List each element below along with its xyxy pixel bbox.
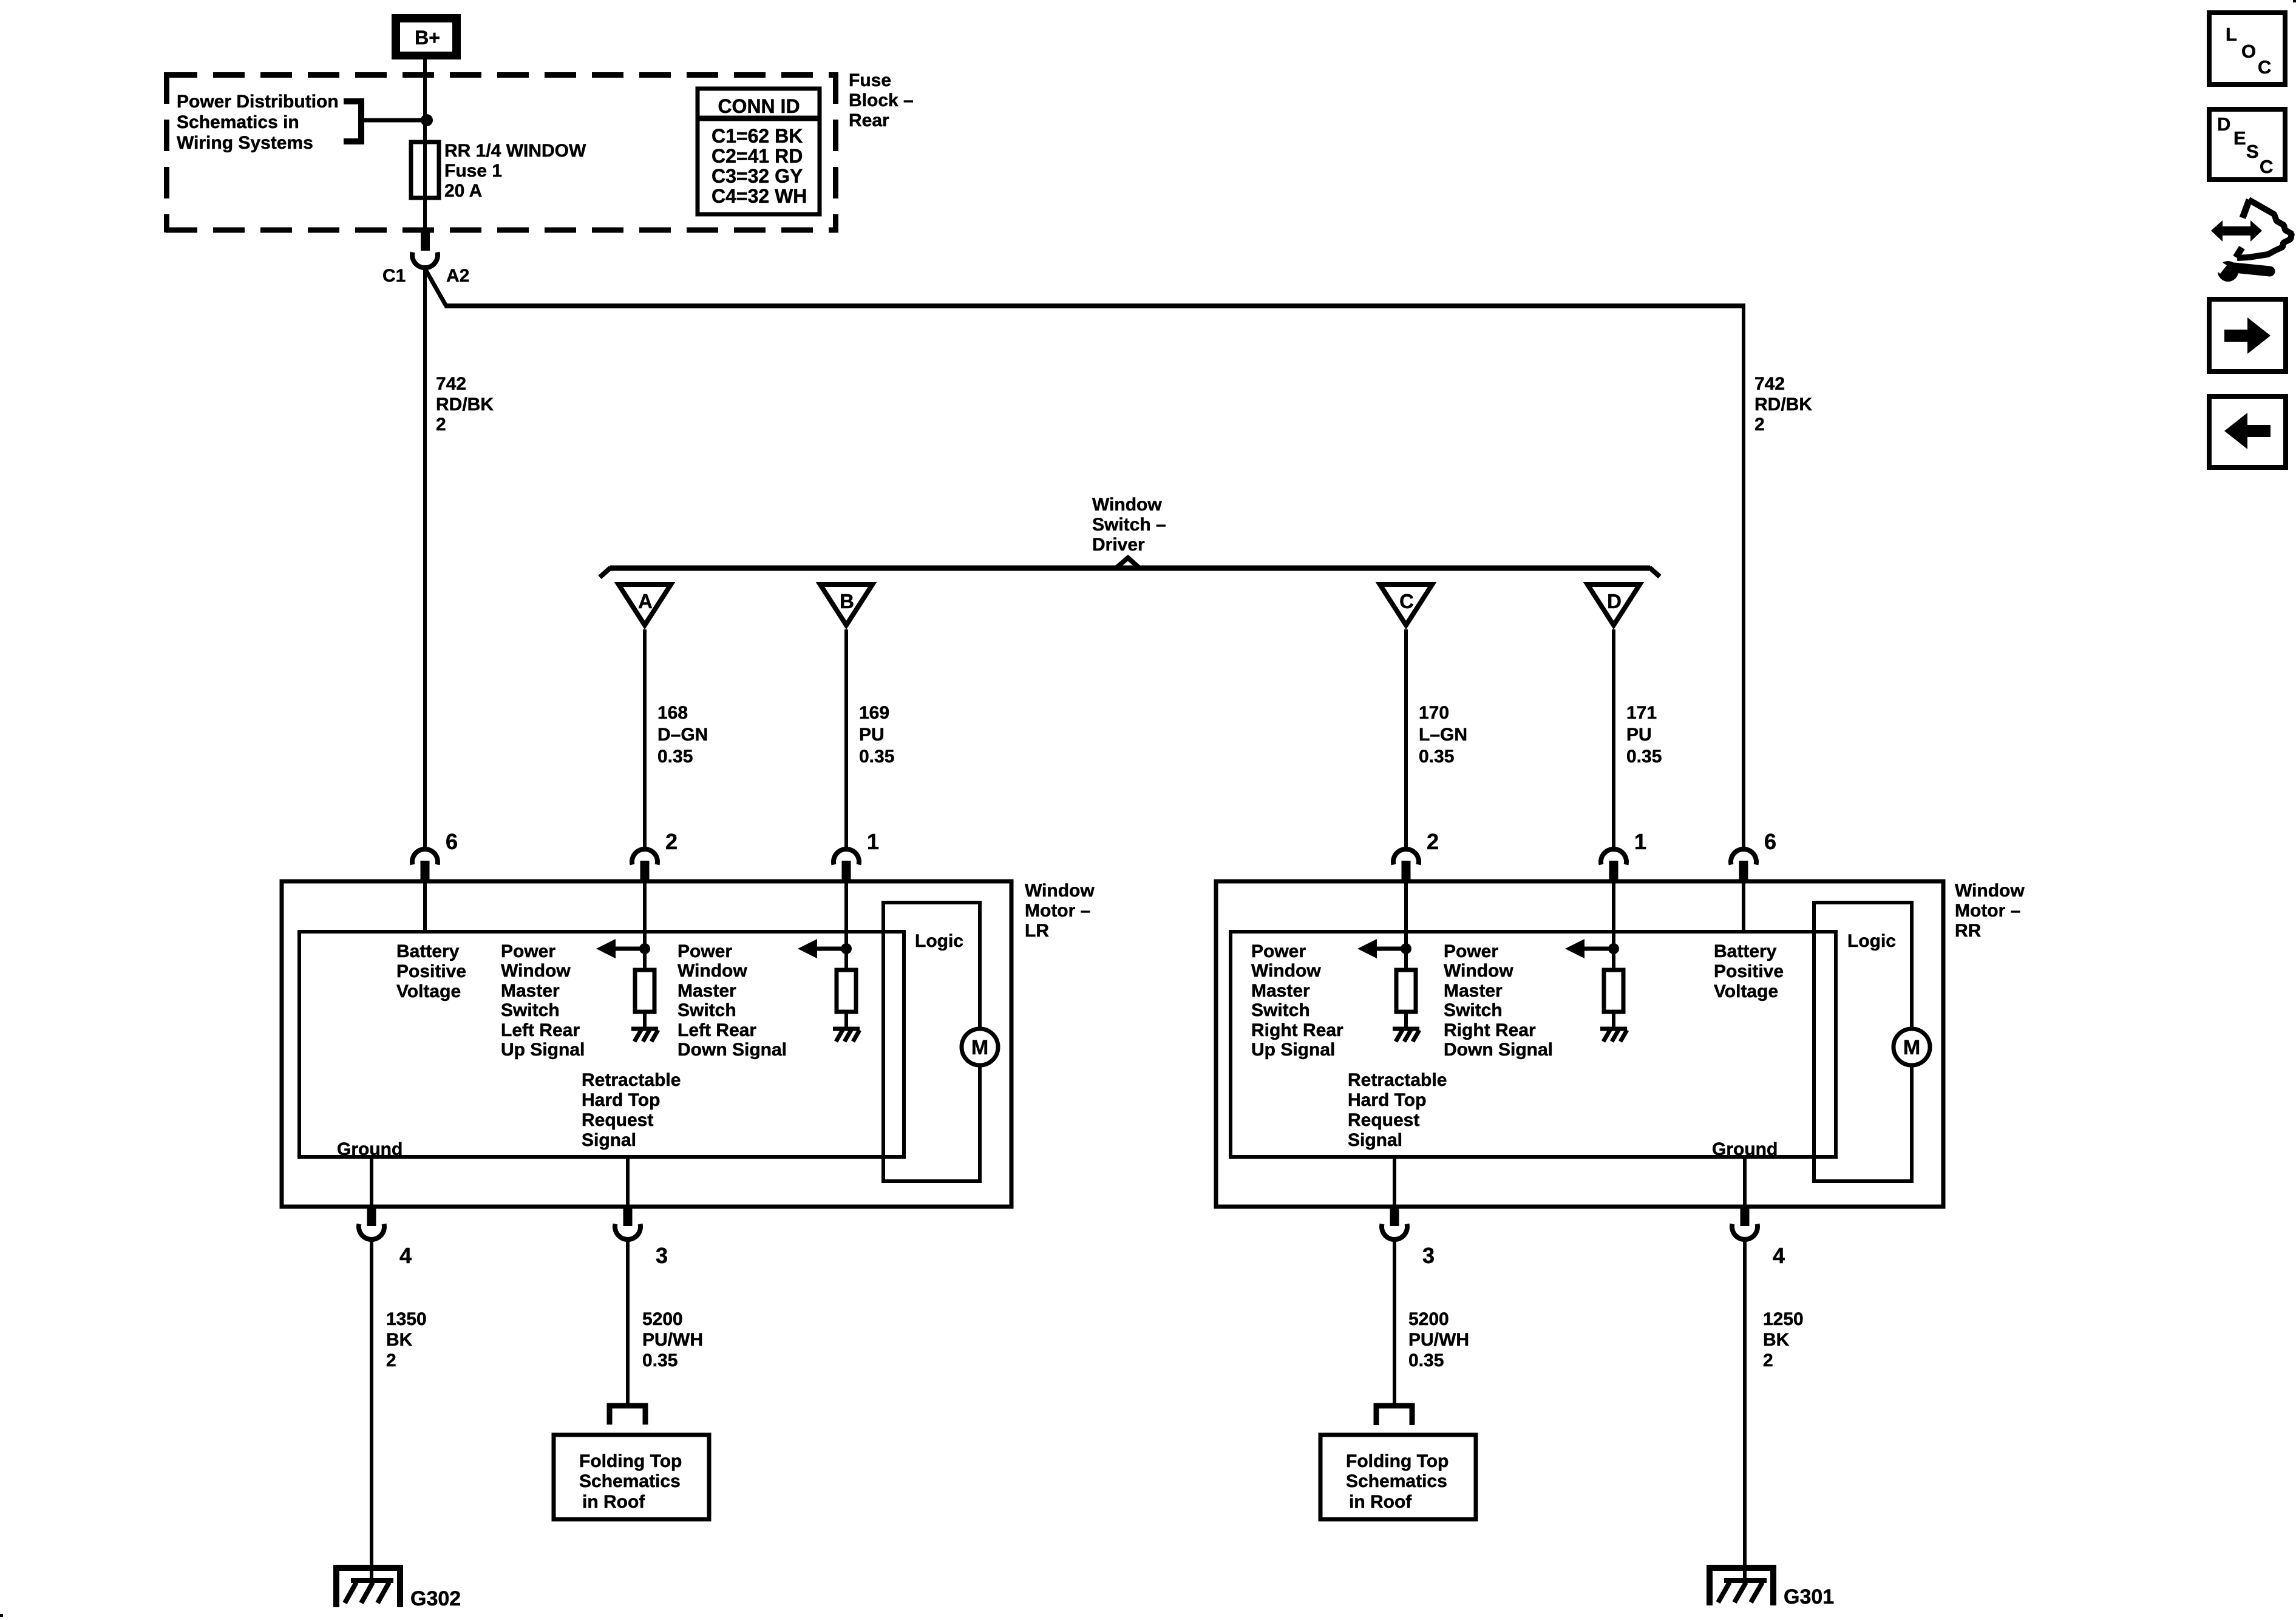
svg-text:Power: Power	[501, 941, 555, 961]
svg-text:C2=41 RD: C2=41 RD	[712, 145, 803, 167]
svg-text:Power Distribution: Power Distribution	[177, 92, 339, 112]
pin number 4 (bottom)	[399, 1243, 412, 1268]
svg-text:BK: BK	[386, 1330, 413, 1350]
fuse block dashed box (Fuse Block - Rear)	[166, 72, 838, 232]
svg-text:in Roof: in Roof	[582, 1492, 645, 1512]
battery feed wire inside LR box	[423, 881, 427, 932]
up-signal input network (LR pin 2): junction, arrow, resistor, chassis ground	[596, 881, 658, 1042]
svg-text:D: D	[1607, 590, 1622, 612]
wire from switch pin A	[643, 629, 647, 849]
svg-text:L–GN: L–GN	[1419, 725, 1467, 745]
connector pin 2 at motor box top (x=1062)	[632, 849, 657, 881]
svg-text:Window: Window	[1025, 881, 1095, 901]
wire 1350 BK 2 to G302	[370, 1241, 373, 1580]
svg-text:1250: 1250	[1763, 1309, 1804, 1329]
svg-text:Left Rear: Left Rear	[678, 1020, 756, 1040]
svg-text:Signal: Signal	[582, 1130, 636, 1150]
label G301	[1784, 1585, 1834, 1608]
svg-text:Window: Window	[1251, 961, 1321, 981]
svg-text:C: C	[2260, 156, 2273, 177]
CONN ID table	[698, 89, 820, 214]
label Retractable Hard Top Request Signal (RR)	[1348, 1070, 1447, 1150]
label 171 PU 0.35	[1626, 703, 1662, 767]
svg-text:Ground: Ground	[1712, 1139, 1778, 1159]
connector pin 1 at motor box top (x=2658)	[1601, 849, 1626, 881]
svg-text:Switch: Switch	[501, 1000, 560, 1020]
label Window Motor - RR	[1955, 881, 2025, 941]
svg-text:Window: Window	[1092, 495, 1162, 515]
window switch pin A (triangle connector)	[619, 585, 671, 625]
svg-text:Master: Master	[678, 981, 736, 1001]
svg-text:5200: 5200	[642, 1309, 683, 1329]
svg-text:A2: A2	[446, 266, 469, 286]
down-signal input network (RR pin 1): junction, arrow, resistor, chassis ground	[1565, 881, 1627, 1042]
svg-text:C1=62 BK: C1=62 BK	[712, 125, 803, 147]
svg-text:Folding Top: Folding Top	[579, 1451, 682, 1471]
svg-text:Logic: Logic	[1847, 931, 1896, 951]
svg-text:Down Signal: Down Signal	[678, 1040, 787, 1060]
fuse F1 RR 1/4 WINDOW 20A	[411, 142, 439, 198]
svg-text:Switch: Switch	[678, 1000, 736, 1020]
svg-text:Window: Window	[1955, 881, 2025, 901]
svg-text:D: D	[2217, 114, 2230, 135]
svg-text:PU: PU	[1626, 725, 1652, 745]
svg-text:Master: Master	[1444, 981, 1503, 1001]
svg-text:169: 169	[859, 703, 889, 723]
pin number 1	[867, 829, 879, 854]
harness fork connector (left)	[610, 1406, 645, 1425]
svg-text:Up Signal: Up Signal	[501, 1040, 585, 1060]
svg-text:2: 2	[1763, 1351, 1773, 1371]
wire from switch pin B	[844, 629, 848, 849]
svg-text:Driver: Driver	[1092, 535, 1145, 555]
svg-text:RD/BK: RD/BK	[436, 395, 494, 415]
wire from B+ through fuse	[423, 59, 427, 232]
svg-text:G301: G301	[1784, 1585, 1834, 1608]
svg-text:Schematics in: Schematics in	[177, 112, 299, 132]
svg-text:O: O	[2241, 41, 2256, 62]
icon diagnostic wrench with double arrow	[2211, 200, 2292, 282]
svg-text:Window: Window	[501, 961, 571, 981]
pin number 2	[665, 829, 678, 854]
svg-text:1: 1	[867, 829, 879, 854]
label 1250 BK 2	[1763, 1309, 1804, 1371]
svg-text:Motor –: Motor –	[1025, 901, 1090, 921]
svg-text:BK: BK	[1763, 1330, 1790, 1350]
svg-text:2: 2	[1754, 415, 1765, 435]
pin number 6	[446, 829, 458, 854]
wire 1250 BK 2 to G301	[1743, 1241, 1747, 1580]
motor M (LR)	[962, 1029, 998, 1065]
connector C1/A2 at fuse block output	[412, 230, 438, 268]
svg-text:20 A: 20 A	[444, 181, 482, 201]
svg-text:L: L	[2226, 24, 2237, 45]
ground G301	[1710, 1568, 1773, 1605]
label Ground (RR)	[1712, 1139, 1778, 1159]
svg-text:742: 742	[436, 374, 466, 394]
svg-text:Logic: Logic	[915, 931, 963, 951]
pin number 2	[1427, 829, 1439, 854]
label Power Window Master Switch Left Rear Down Signal	[678, 941, 787, 1060]
svg-text:1350: 1350	[386, 1309, 427, 1329]
page corner mark top-right	[2293, 0, 2296, 2]
svg-text:2: 2	[386, 1351, 396, 1371]
svg-text:E: E	[2233, 127, 2246, 149]
junction node on B+ wire	[421, 114, 433, 126]
svg-text:Right Rear: Right Rear	[1444, 1020, 1536, 1040]
svg-text:C3=32 GY: C3=32 GY	[712, 165, 803, 187]
pin number 1	[1634, 829, 1646, 854]
window switch pin D (triangle connector)	[1588, 585, 1640, 625]
svg-text:Block –: Block –	[849, 90, 914, 110]
svg-text:Schematics: Schematics	[579, 1471, 681, 1491]
window motor LR inner box	[299, 932, 904, 1157]
wire from switch pin C	[1404, 629, 1408, 849]
battery feed wire inside RR box	[1742, 881, 1745, 932]
svg-text:Hard Top: Hard Top	[582, 1090, 660, 1110]
wire 742 RD/BK right vertical	[1742, 306, 1745, 849]
svg-text:B+: B+	[415, 27, 440, 49]
connector pin 4 at motor box bottom (x=2874)	[1732, 1207, 1758, 1239]
label A2	[446, 266, 469, 286]
logic block (LR)	[883, 903, 980, 1181]
svg-text:Battery: Battery	[1714, 941, 1777, 961]
svg-text:Schematics: Schematics	[1346, 1471, 1447, 1491]
label Battery Positive Voltage (RR)	[1714, 941, 1784, 1001]
svg-text:Retractable: Retractable	[1348, 1070, 1447, 1090]
svg-text:Switch –: Switch –	[1092, 515, 1166, 535]
svg-text:Right Rear: Right Rear	[1251, 1020, 1343, 1040]
harness fork connector (right)	[1376, 1406, 1412, 1425]
connector pin 6 at motor box top (x=700)	[412, 849, 438, 881]
battery positive terminal B+	[392, 14, 461, 59]
wire branch diagonal from C1 connector	[424, 266, 447, 307]
label Window Motor - LR	[1025, 881, 1095, 941]
svg-text:PU/WH: PU/WH	[1408, 1330, 1469, 1350]
ground wire inside LR box	[370, 1157, 373, 1207]
Folding Top Schematics in Roof box (right)	[1320, 1435, 1476, 1519]
svg-text:170: 170	[1419, 703, 1449, 723]
icon button back (left arrow)	[2209, 396, 2286, 467]
svg-text:PU/WH: PU/WH	[642, 1330, 703, 1350]
svg-text:Fuse: Fuse	[849, 70, 891, 90]
svg-text:6: 6	[1764, 829, 1776, 854]
svg-text:168: 168	[657, 703, 688, 723]
label G302	[410, 1587, 461, 1610]
svg-text:0.35: 0.35	[1408, 1351, 1444, 1371]
svg-text:B: B	[840, 590, 854, 612]
wire 5200 PU/WH 0.35 (left)	[626, 1241, 630, 1404]
connector pin 6 at motor box top (x=2872)	[1731, 849, 1756, 881]
label Power Window Master Switch Right Rear Down Signal	[1444, 941, 1553, 1060]
label 5200 PU/WH 0.35 (left)	[642, 1309, 703, 1371]
bracket from Power Distribution label to wire	[344, 101, 425, 141]
svg-text:3: 3	[1422, 1243, 1435, 1268]
label Power Window Master Switch Right Rear Up Signal	[1251, 941, 1343, 1060]
svg-text:0.35: 0.35	[642, 1351, 678, 1371]
label 742 RD/BK 2 (left)	[436, 374, 494, 435]
wire 742 RD/BK left vertical	[423, 268, 427, 849]
label RR 1/4 WINDOW Fuse 1 20 A	[444, 141, 586, 201]
svg-text:0.35: 0.35	[1419, 747, 1454, 767]
svg-text:742: 742	[1754, 374, 1785, 394]
svg-text:C: C	[1399, 590, 1414, 612]
svg-text:0.35: 0.35	[859, 747, 894, 767]
request signal wire inside RR box	[1393, 1157, 1396, 1207]
window motor RR outer box	[1216, 881, 1943, 1207]
svg-text:Power: Power	[678, 941, 732, 961]
svg-text:CONN ID: CONN ID	[718, 95, 800, 117]
svg-text:Window: Window	[1444, 961, 1513, 981]
svg-text:PU: PU	[859, 725, 885, 745]
svg-text:D–GN: D–GN	[657, 725, 708, 745]
window motor RR inner box	[1231, 932, 1836, 1157]
label Logic (RR)	[1847, 931, 1896, 951]
pin number 3 (bottom)	[656, 1243, 668, 1268]
wire 742 RD/BK horizontal run	[445, 303, 1745, 308]
window switch driver bracket	[600, 558, 1660, 577]
svg-text:2: 2	[436, 415, 446, 435]
svg-text:Motor –: Motor –	[1955, 901, 2020, 921]
label 168 D-GN 0.35	[657, 703, 708, 767]
icon button LOC	[2209, 13, 2285, 84]
svg-text:in Roof: in Roof	[1349, 1492, 1412, 1512]
label Power Window Master Switch Left Rear Up Signal	[501, 941, 585, 1060]
window motor LR outer box	[282, 881, 1011, 1207]
svg-text:Master: Master	[1251, 981, 1310, 1001]
connector pin 4 at motor box bottom (x=612)	[359, 1207, 384, 1239]
svg-text:Positive: Positive	[396, 961, 466, 981]
svg-text:5200: 5200	[1408, 1309, 1449, 1329]
svg-text:Request: Request	[1348, 1110, 1419, 1130]
svg-text:RR 1/4 WINDOW: RR 1/4 WINDOW	[444, 141, 586, 161]
connector pin 1 at motor box top (x=1394)	[834, 849, 859, 881]
svg-text:Master: Master	[501, 981, 560, 1001]
icon button DESC	[2209, 109, 2285, 180]
svg-text:Fuse 1: Fuse 1	[444, 161, 502, 181]
svg-text:Wiring Systems: Wiring Systems	[177, 133, 313, 153]
request signal wire inside LR box	[626, 1157, 630, 1207]
svg-text:Power: Power	[1251, 941, 1306, 961]
svg-text:S: S	[2246, 141, 2259, 162]
svg-text:Retractable: Retractable	[582, 1070, 681, 1090]
ground G302	[336, 1568, 400, 1607]
svg-text:4: 4	[399, 1243, 412, 1268]
connector pin 3 at motor box bottom (x=1034)	[615, 1207, 640, 1239]
svg-text:Folding Top: Folding Top	[1346, 1451, 1449, 1471]
svg-text:Voltage: Voltage	[1714, 981, 1778, 1001]
svg-text:Switch: Switch	[1444, 1000, 1503, 1020]
svg-text:Ground: Ground	[337, 1139, 402, 1159]
label Retractable Hard Top Request Signal (LR)	[582, 1070, 681, 1150]
svg-text:3: 3	[656, 1243, 668, 1268]
label 170 L-GN 0.35	[1419, 703, 1467, 767]
svg-text:Left Rear: Left Rear	[501, 1020, 580, 1040]
up-signal input network (RR pin 2): junction, arrow, resistor, chassis ground	[1357, 881, 1419, 1042]
svg-text:4: 4	[1773, 1243, 1785, 1268]
window switch pin C (triangle connector)	[1380, 585, 1432, 625]
logic block (RR)	[1814, 903, 1912, 1181]
svg-text:Down Signal: Down Signal	[1444, 1040, 1553, 1060]
svg-text:2: 2	[665, 829, 678, 854]
svg-text:Switch: Switch	[1251, 1000, 1310, 1020]
svg-text:Signal: Signal	[1348, 1130, 1402, 1150]
svg-text:Hard Top: Hard Top	[1348, 1090, 1426, 1110]
svg-text:6: 6	[446, 829, 458, 854]
pin number 4 (bottom)	[1773, 1243, 1785, 1268]
svg-text:M: M	[1903, 1036, 1920, 1059]
window switch pin B (triangle connector)	[820, 585, 872, 625]
svg-text:Request: Request	[582, 1110, 653, 1130]
connector pin 3 at motor box bottom (x=2297)	[1382, 1207, 1407, 1239]
svg-text:Voltage: Voltage	[396, 981, 461, 1001]
label Fuse Block - Rear	[849, 70, 914, 130]
pin number 3 (bottom)	[1422, 1243, 1435, 1268]
svg-text:Battery: Battery	[396, 941, 460, 961]
svg-text:C4=32 WH: C4=32 WH	[712, 185, 807, 207]
svg-text:M: M	[971, 1036, 988, 1059]
label Window Switch - Driver	[1092, 495, 1166, 555]
label 1350 BK 2	[386, 1309, 427, 1371]
label 742 RD/BK 2 (right)	[1754, 374, 1812, 435]
connector pin 2 at motor box top (x=2316)	[1393, 849, 1419, 881]
svg-text:Positive: Positive	[1714, 961, 1784, 981]
svg-text:RR: RR	[1955, 921, 1982, 941]
icon button next (right arrow)	[2209, 299, 2286, 371]
label Ground (LR)	[337, 1139, 402, 1159]
label Power Distribution Schematics in Wiring Systems	[177, 92, 339, 153]
svg-text:Power: Power	[1444, 941, 1498, 961]
svg-text:A: A	[638, 590, 653, 612]
svg-text:Rear: Rear	[849, 110, 889, 130]
label Battery Positive Voltage (LR)	[396, 941, 466, 1001]
svg-text:1: 1	[1634, 829, 1646, 854]
svg-text:G302: G302	[410, 1587, 461, 1610]
svg-text:Window: Window	[678, 961, 747, 981]
label 5200 PU/WH 0.35 (right)	[1408, 1309, 1469, 1371]
svg-text:C: C	[2258, 56, 2271, 78]
page corner mark bottom-left	[0, 1614, 3, 1617]
svg-text:0.35: 0.35	[1626, 747, 1662, 767]
motor M (RR)	[1894, 1029, 1930, 1065]
down-signal input network (LR pin 1): junction, arrow, resistor, chassis ground	[798, 881, 860, 1042]
pin number 6	[1764, 829, 1776, 854]
wire 5200 PU/WH 0.35 (right)	[1393, 1241, 1396, 1404]
svg-text:LR: LR	[1025, 921, 1049, 941]
svg-text:0.35: 0.35	[657, 747, 693, 767]
svg-text:C1: C1	[382, 266, 406, 286]
svg-text:171: 171	[1626, 703, 1657, 723]
label 169 PU 0.35	[859, 703, 894, 767]
Folding Top Schematics in Roof box (left)	[554, 1435, 709, 1519]
svg-text:RD/BK: RD/BK	[1754, 395, 1812, 415]
svg-text:2: 2	[1427, 829, 1439, 854]
label Logic (LR)	[915, 931, 963, 951]
wire from switch pin D	[1612, 629, 1615, 849]
ground wire inside RR box	[1743, 1157, 1747, 1207]
label C1	[382, 266, 406, 286]
svg-text:Up Signal: Up Signal	[1251, 1040, 1335, 1060]
